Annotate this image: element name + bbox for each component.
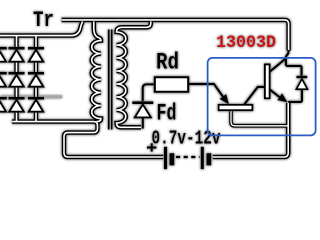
svg-text:13003D: 13003D bbox=[216, 33, 276, 53]
svg-text:0.7v-12v: 0.7v-12v bbox=[152, 127, 221, 149]
svg-text:Rd: Rd bbox=[156, 50, 179, 76]
svg-text:Fd: Fd bbox=[157, 100, 177, 126]
svg-text:Tr: Tr bbox=[33, 8, 54, 33]
